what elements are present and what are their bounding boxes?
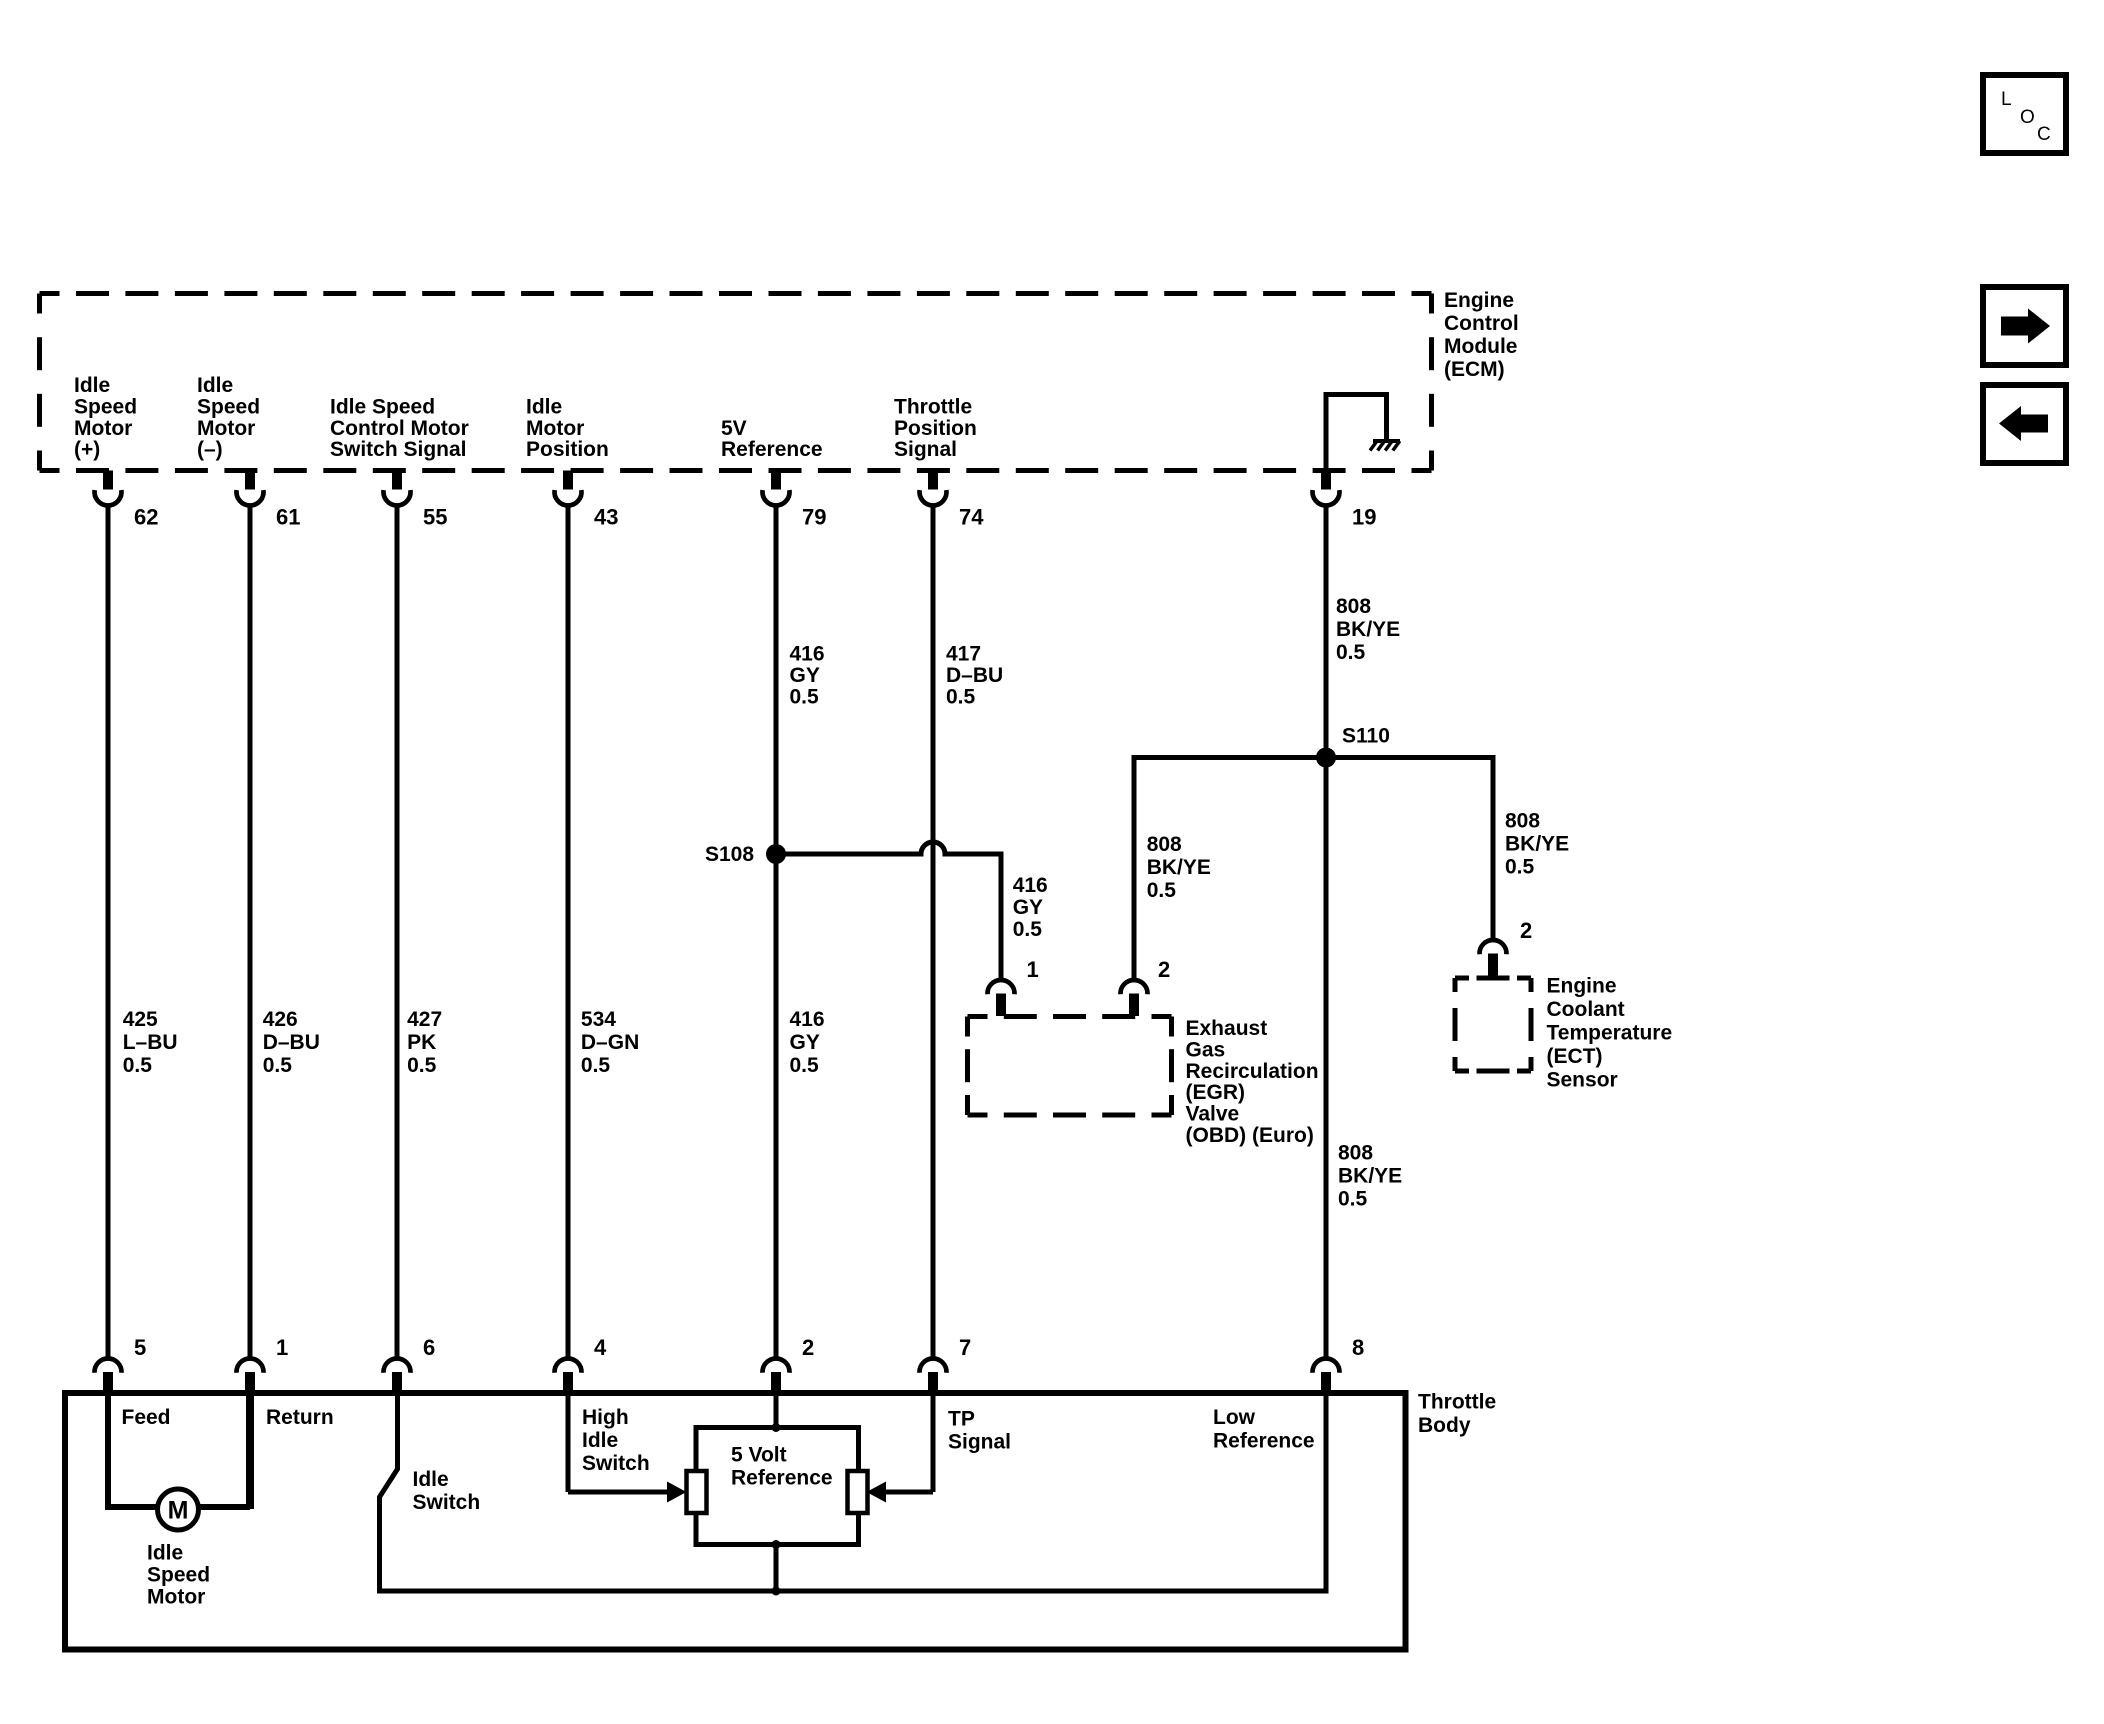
svg-text:Gas: Gas [1186, 1038, 1226, 1061]
svg-text:427: 427 [407, 1008, 442, 1031]
svg-text:Engine: Engine [1444, 289, 1514, 312]
svg-text:Signal: Signal [948, 1431, 1011, 1454]
svg-text:808: 808 [1505, 810, 1540, 833]
svg-text:(ECM): (ECM) [1444, 358, 1505, 381]
svg-text:2: 2 [1158, 957, 1170, 982]
svg-text:D–BU: D–BU [263, 1031, 320, 1054]
svg-text:L: L [2001, 89, 2012, 110]
svg-text:Control Motor: Control Motor [330, 417, 469, 440]
svg-text:5V: 5V [721, 417, 747, 440]
svg-text:7: 7 [959, 1335, 971, 1360]
svg-text:0.5: 0.5 [1505, 856, 1535, 879]
svg-text:(OBD) (Euro): (OBD) (Euro) [1186, 1124, 1314, 1147]
svg-text:Motor: Motor [147, 1586, 205, 1609]
svg-text:426: 426 [263, 1008, 298, 1031]
svg-text:Idle: Idle [147, 1542, 183, 1565]
svg-text:5 Volt: 5 Volt [731, 1444, 787, 1467]
svg-text:43: 43 [594, 505, 618, 530]
svg-text:0.5: 0.5 [1147, 879, 1177, 902]
svg-text:6: 6 [423, 1335, 435, 1360]
svg-text:5: 5 [134, 1335, 146, 1360]
svg-text:534: 534 [581, 1008, 616, 1031]
svg-text:Idle: Idle [197, 374, 233, 397]
svg-text:(–): (–) [197, 438, 223, 461]
svg-text:74: 74 [959, 505, 984, 530]
svg-text:62: 62 [134, 505, 158, 530]
svg-text:Coolant: Coolant [1547, 998, 1625, 1021]
svg-text:(EGR): (EGR) [1186, 1081, 1246, 1104]
svg-text:Exhaust: Exhaust [1186, 1017, 1268, 1040]
svg-text:416: 416 [790, 643, 825, 666]
svg-text:Reference: Reference [721, 438, 823, 461]
svg-text:808: 808 [1147, 833, 1182, 856]
svg-text:19: 19 [1352, 505, 1376, 530]
svg-text:2: 2 [802, 1335, 814, 1360]
svg-text:417: 417 [946, 643, 981, 666]
svg-text:Idle: Idle [582, 1429, 618, 1452]
svg-text:Temperature: Temperature [1547, 1022, 1673, 1045]
svg-text:55: 55 [423, 505, 447, 530]
svg-text:2: 2 [1520, 918, 1532, 943]
svg-text:0.5: 0.5 [407, 1054, 437, 1077]
svg-text:Switch: Switch [582, 1452, 650, 1475]
svg-text:GY: GY [790, 664, 820, 687]
svg-text:425: 425 [123, 1008, 158, 1031]
svg-text:GY: GY [1013, 896, 1043, 919]
svg-text:Motor: Motor [197, 417, 255, 440]
svg-text:PK: PK [407, 1031, 436, 1054]
svg-text:D–BU: D–BU [946, 664, 1003, 687]
svg-text:Idle: Idle [413, 1468, 449, 1491]
svg-text:(+): (+) [74, 438, 100, 461]
svg-text:Engine: Engine [1547, 975, 1617, 998]
svg-text:Low: Low [1213, 1406, 1256, 1429]
svg-text:0.5: 0.5 [1336, 641, 1366, 664]
svg-text:Sensor: Sensor [1547, 1069, 1618, 1092]
svg-text:Speed: Speed [74, 395, 137, 418]
svg-text:0.5: 0.5 [581, 1054, 611, 1077]
svg-text:Reference: Reference [731, 1466, 833, 1489]
svg-text:0.5: 0.5 [1013, 918, 1043, 941]
svg-text:Speed: Speed [197, 395, 260, 418]
svg-text:High: High [582, 1406, 629, 1429]
svg-text:808: 808 [1336, 595, 1371, 618]
svg-text:Position: Position [894, 417, 977, 440]
svg-text:1: 1 [276, 1335, 288, 1360]
svg-text:Idle Speed: Idle Speed [330, 395, 435, 418]
svg-text:Signal: Signal [894, 438, 957, 461]
svg-text:Throttle: Throttle [1418, 1391, 1496, 1414]
svg-text:0.5: 0.5 [790, 1054, 820, 1077]
svg-text:61: 61 [276, 505, 300, 530]
svg-text:Idle: Idle [526, 395, 562, 418]
svg-text:BK/YE: BK/YE [1147, 856, 1211, 879]
svg-text:0.5: 0.5 [946, 686, 976, 709]
svg-text:Feed: Feed [122, 1406, 171, 1429]
svg-text:Reference: Reference [1213, 1430, 1315, 1453]
svg-text:BK/YE: BK/YE [1336, 618, 1400, 641]
svg-text:Idle: Idle [74, 374, 110, 397]
svg-text:BK/YE: BK/YE [1338, 1165, 1402, 1188]
svg-text:TP: TP [948, 1408, 975, 1431]
svg-text:Valve: Valve [1186, 1103, 1240, 1126]
svg-text:0.5: 0.5 [263, 1054, 293, 1077]
svg-text:0.5: 0.5 [123, 1054, 153, 1077]
svg-text:Recirculation: Recirculation [1186, 1060, 1319, 1083]
svg-text:Motor: Motor [526, 417, 584, 440]
svg-text:D–GN: D–GN [581, 1031, 639, 1054]
svg-text:Switch: Switch [413, 1491, 481, 1514]
svg-text:Speed: Speed [147, 1564, 210, 1587]
svg-text:O: O [2020, 107, 2035, 128]
svg-text:Position: Position [526, 438, 609, 461]
svg-text:Control: Control [1444, 312, 1519, 335]
svg-text:0.5: 0.5 [1338, 1188, 1368, 1211]
svg-text:79: 79 [802, 505, 826, 530]
svg-text:808: 808 [1338, 1142, 1373, 1165]
svg-text:Return: Return [266, 1406, 334, 1429]
svg-text:M: M [168, 1497, 189, 1525]
svg-text:GY: GY [790, 1031, 820, 1054]
svg-text:Module: Module [1444, 335, 1518, 358]
svg-text:8: 8 [1352, 1335, 1364, 1360]
svg-text:1: 1 [1027, 957, 1039, 982]
svg-text:BK/YE: BK/YE [1505, 833, 1569, 856]
svg-text:Throttle: Throttle [894, 395, 972, 418]
svg-text:L–BU: L–BU [123, 1031, 178, 1054]
svg-text:(ECT): (ECT) [1547, 1045, 1603, 1068]
svg-text:Motor: Motor [74, 417, 132, 440]
svg-text:Body: Body [1418, 1414, 1471, 1437]
svg-text:S108: S108 [705, 843, 754, 866]
svg-text:Switch Signal: Switch Signal [330, 438, 467, 461]
svg-text:S110: S110 [1342, 725, 1390, 748]
svg-text:4: 4 [594, 1335, 607, 1360]
svg-text:C: C [2037, 124, 2051, 145]
svg-text:0.5: 0.5 [790, 686, 820, 709]
svg-text:416: 416 [1013, 874, 1048, 897]
svg-text:416: 416 [790, 1008, 825, 1031]
